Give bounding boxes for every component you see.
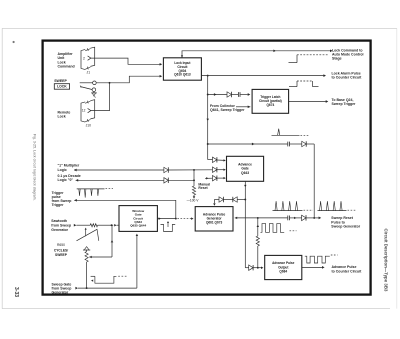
potentiometer R650 <box>85 252 88 263</box>
wire pot bottom to sweep gate line <box>86 262 88 288</box>
svg-text:Logic: Logic <box>58 168 67 172</box>
capacitor C2 <box>287 142 289 147</box>
diode D9 <box>233 197 237 202</box>
waveform sawtooth <box>77 228 99 241</box>
junction lock output <box>207 75 209 77</box>
connector J10 <box>81 100 95 128</box>
waveform spike train left <box>273 201 314 210</box>
wire multiplier logic line <box>74 169 226 172</box>
wire bus to Trigger Latch with diode and capacitor <box>208 93 251 96</box>
svg-text:Q641, Sweep Trigger: Q641, Sweep Trigger <box>210 108 245 112</box>
wire Trigger Latch to Base Q24 <box>289 100 329 103</box>
wire Advance Gate output down <box>244 181 246 267</box>
wire window gate output to Advance Pulse Generator <box>157 217 193 220</box>
junction bus to trigger latch <box>207 94 209 96</box>
wire Lock Input output to Counter Circuit <box>201 74 326 77</box>
ground below switch <box>91 92 97 98</box>
waveform advance pulse output <box>305 255 338 263</box>
junction sawtooth and pot wiper <box>111 224 113 226</box>
wire bus corner into Advance Gate top input <box>208 159 226 161</box>
svg-text:Generator: Generator <box>51 228 68 232</box>
svg-text:Fig. 3-25. Lock circuit logic: Fig. 3-25. Lock circuit logic block diag… <box>32 134 36 201</box>
svg-text:Circuit Description—Type 3B3: Circuit Description—Type 3B3 <box>384 229 389 292</box>
waveform single spike <box>272 129 310 136</box>
wire memory reset line with capacitor and diode to right bus <box>208 143 315 218</box>
svg-text:12: 12 <box>82 109 86 113</box>
block Lock Input Circuit Q604 Q610 Q613 <box>163 58 201 80</box>
svg-text:to Counter Circuit: to Counter Circuit <box>332 269 363 273</box>
block Advance Gate Q643 <box>227 156 264 181</box>
svg-text:Generator: Generator <box>52 291 69 295</box>
wire into Advance Pulse Output with diode <box>245 266 263 269</box>
waveform pulse lock alarm <box>289 81 319 87</box>
svg-text:Lock: Lock <box>58 115 66 119</box>
wire resistor arrow to -100V <box>193 195 196 199</box>
svg-text:Q643: Q643 <box>241 171 249 175</box>
wire vertical bus from lock output <box>206 76 209 160</box>
svg-text:J10: J10 <box>86 123 91 127</box>
block Trigger Latch Circuit partial Q674 <box>252 89 289 113</box>
resistor R3 <box>90 224 97 227</box>
svg-text:Logic "0": Logic "0" <box>58 178 74 182</box>
wire from collector into Trigger Latch <box>236 105 250 108</box>
svg-text:J1: J1 <box>87 70 91 74</box>
diode D8 <box>219 197 223 202</box>
waveform sweep gate <box>91 276 127 283</box>
diode D11 <box>302 215 306 220</box>
svg-text:CYCLES/: CYCLES/ <box>54 248 68 252</box>
svg-text:Sweep Trigger: Sweep Trigger <box>332 102 357 106</box>
wire sweep gate input <box>75 234 138 290</box>
junction bus to memory reset line <box>207 143 209 145</box>
junction resistor branch <box>257 217 259 219</box>
diode D1 <box>227 92 231 97</box>
junction advance gate to diode pair <box>244 199 246 201</box>
block Advance Pulse Generator <box>195 207 233 231</box>
waveform step lock command <box>289 55 330 63</box>
svg-text:Q635 Q644: Q635 Q644 <box>130 224 146 228</box>
svg-text:2: 2 <box>83 56 85 60</box>
svg-text:Q610 Q613: Q610 Q613 <box>174 73 191 77</box>
svg-text:R650: R650 <box>57 243 65 247</box>
svg-text:LOCK: LOCK <box>57 85 67 89</box>
diagram border frame <box>43 41 371 295</box>
svg-text:Trigger: Trigger <box>52 203 65 207</box>
capacitor C1 <box>237 92 239 97</box>
svg-text:Stage: Stage <box>332 57 342 61</box>
svg-text:Q674: Q674 <box>266 103 274 107</box>
junction decade line to resistor <box>193 179 195 181</box>
wire resistor branch to Advance Pulse Output <box>257 218 260 268</box>
wire decade logic line <box>76 179 194 182</box>
diode D3 <box>213 157 217 162</box>
svg-text:to Counter Circuit: to Counter Circuit <box>332 76 363 80</box>
wire Lock Input top to Auto Mode Control <box>181 49 333 57</box>
ground above potentiometer <box>83 247 90 252</box>
wire J10 to junction <box>91 83 110 111</box>
wiper arm of R650 <box>89 225 113 258</box>
waveform window notch <box>161 221 176 232</box>
wire Advance Pulse Generator right line <box>235 217 321 220</box>
svg-text:Q684: Q684 <box>279 269 287 273</box>
block Window Gate Circuit <box>119 206 157 232</box>
svg-text:Sweep Generator: Sweep Generator <box>331 225 360 229</box>
junction logic lines <box>193 169 195 171</box>
svg-text:Command: Command <box>58 64 75 68</box>
diode D10 <box>249 265 253 270</box>
svg-text:"1" Multiplier: "1" Multiplier <box>58 163 80 167</box>
junction diode resistor advance output <box>257 267 259 269</box>
wire junction bus vertical <box>193 170 195 186</box>
svg-text:—100 V: —100 V <box>187 198 200 202</box>
wire Advance Pulse Output to counter <box>302 266 325 269</box>
waveform trigger spikes <box>77 188 113 197</box>
diode D6 <box>164 178 168 183</box>
wire sawtooth input with resistor R3 <box>74 224 119 227</box>
diode D4 <box>164 167 168 172</box>
label LOCK boxed <box>54 84 69 90</box>
waveform advance pulses <box>261 224 297 233</box>
resistor R2 <box>256 236 259 246</box>
wire diode pair to Advance Pulse Generator top <box>213 200 245 206</box>
wire J1 to Lock Input Circuit <box>91 58 162 66</box>
diode D7 <box>213 175 217 180</box>
wire switch to Lock Input Circuit <box>96 75 162 83</box>
svg-text:3-33: 3-33 <box>13 287 19 297</box>
block Advance Pulse Output <box>265 255 302 279</box>
waveform spike train right <box>318 201 357 210</box>
capacitor C3 <box>287 216 289 221</box>
svg-text:Q661 Q673: Q661 Q673 <box>206 221 222 225</box>
junction trigger line at window output <box>175 218 177 220</box>
wire manual reset stub <box>205 177 226 180</box>
connector J1 <box>81 47 95 74</box>
junction sweep gate and pot <box>86 287 88 289</box>
svg-text:Reset: Reset <box>198 186 208 190</box>
junction sweep reset and vertical bus <box>313 217 315 219</box>
svg-text:SWEEP: SWEEP <box>55 253 68 257</box>
svg-text:SWEEP: SWEEP <box>54 79 67 83</box>
diode D5 <box>213 167 217 172</box>
diode D2 <box>302 141 306 146</box>
switch SW sweep lock <box>80 81 97 91</box>
wire trigger pulse to window line <box>74 199 176 219</box>
resistor R1 to -100V <box>192 186 195 195</box>
junction switch to J10 <box>109 82 111 84</box>
binder speck <box>13 41 15 43</box>
